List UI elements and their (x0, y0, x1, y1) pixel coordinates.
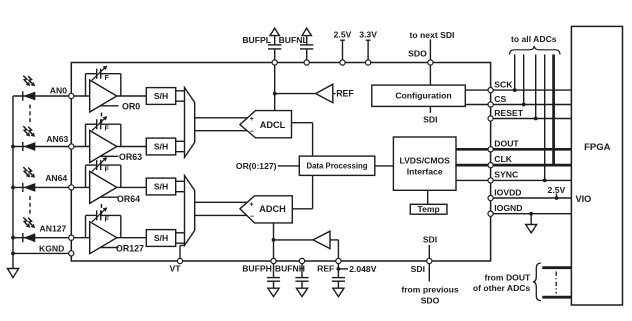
svg-text:DOUT: DOUT (494, 138, 519, 148)
svg-text:ADCH: ADCH (259, 204, 286, 214)
svg-text:OR0: OR0 (122, 102, 140, 112)
svg-text:SDI: SDI (423, 234, 437, 244)
svg-text:LVDS/CMOS: LVDS/CMOS (399, 156, 450, 166)
svg-text:AN0: AN0 (50, 86, 67, 96)
svg-text:SDI: SDI (411, 264, 425, 274)
svg-text:Interface: Interface (407, 166, 443, 176)
svg-text:Data Processing: Data Processing (306, 162, 367, 171)
svg-text:RESET: RESET (494, 108, 523, 118)
svg-text:of other ADCs: of other ADCs (473, 283, 531, 293)
svg-text:+: + (250, 116, 254, 123)
svg-text:CLK: CLK (494, 154, 512, 164)
svg-text:BUFPL: BUFPL (242, 35, 271, 45)
svg-text:−: − (250, 214, 254, 221)
svg-text:FPGA: FPGA (584, 142, 611, 153)
svg-text:S/H: S/H (154, 233, 168, 243)
svg-text:SDO: SDO (408, 49, 427, 59)
svg-text:2.5V: 2.5V (548, 185, 566, 195)
svg-text:S/H: S/H (154, 182, 168, 192)
svg-text:AN63: AN63 (46, 134, 68, 144)
svg-text:F: F (105, 73, 110, 82)
svg-text:from DOUT: from DOUT (484, 273, 531, 283)
svg-text:OR63: OR63 (119, 152, 142, 162)
svg-text:IOVDD: IOVDD (494, 187, 521, 197)
svg-text:SCK: SCK (494, 79, 513, 89)
svg-text:OR127: OR127 (116, 243, 144, 253)
svg-text:BUFPH: BUFPH (242, 263, 272, 273)
svg-text:AN64: AN64 (45, 173, 67, 183)
svg-text:IOGND: IOGND (494, 203, 522, 213)
svg-text:+: + (250, 202, 254, 209)
svg-text:VIO: VIO (576, 194, 592, 204)
svg-text:S/H: S/H (154, 142, 168, 152)
svg-text:OR(0:127): OR(0:127) (236, 161, 277, 171)
svg-text:to next SDI: to next SDI (410, 30, 455, 40)
svg-text:2.5V: 2.5V (334, 29, 352, 39)
svg-text:F: F (105, 215, 110, 224)
svg-text:SDO: SDO (421, 295, 440, 305)
svg-text:SDI: SDI (423, 114, 437, 124)
svg-text:3.3V: 3.3V (359, 29, 377, 39)
svg-text:AN127: AN127 (40, 224, 67, 234)
svg-text:F: F (105, 124, 110, 133)
svg-text:F: F (105, 164, 110, 173)
svg-text:from previous: from previous (401, 285, 459, 295)
svg-text:2.048V: 2.048V (349, 264, 377, 274)
svg-text:REF: REF (336, 89, 354, 99)
svg-text:ADCL: ADCL (260, 120, 286, 130)
svg-text:Temp: Temp (417, 204, 439, 214)
svg-text:OR64: OR64 (117, 194, 140, 204)
svg-text:BUFNL: BUFNL (279, 35, 308, 45)
svg-text:CS: CS (494, 94, 506, 104)
svg-text:S/H: S/H (154, 91, 168, 101)
svg-text:VT: VT (170, 264, 182, 274)
svg-text:BUFNH: BUFNH (275, 263, 305, 273)
svg-text:SYNC: SYNC (494, 170, 518, 180)
svg-text:Configuration: Configuration (395, 90, 451, 100)
svg-text:−: − (250, 128, 254, 135)
svg-text:REF: REF (317, 263, 334, 273)
svg-text:to all ADCs: to all ADCs (511, 34, 557, 44)
svg-text:KGND: KGND (39, 243, 64, 253)
